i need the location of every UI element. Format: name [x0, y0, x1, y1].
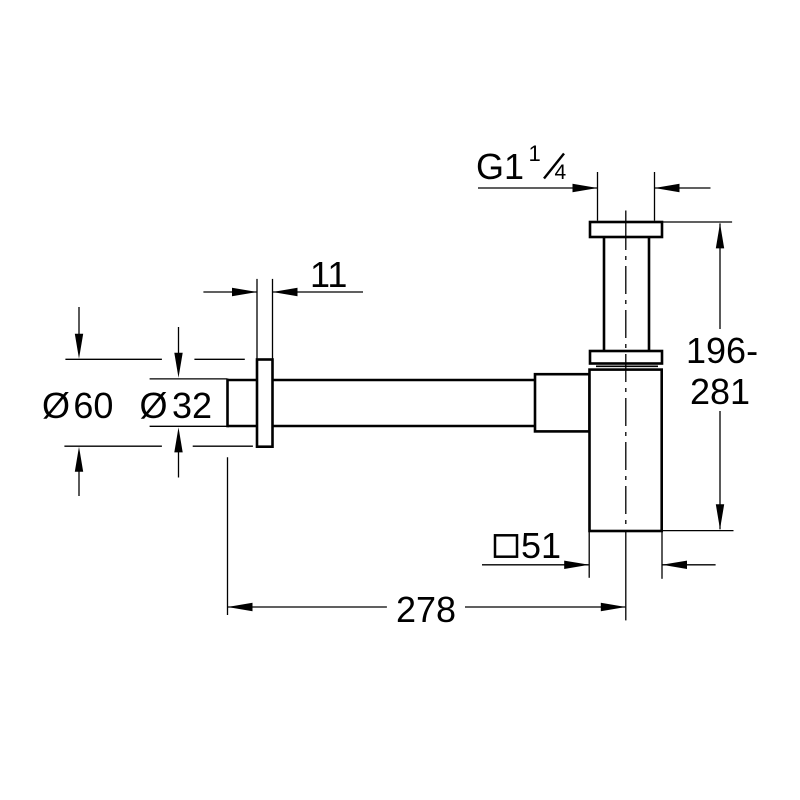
bottom flange [590, 351, 662, 364]
top flange [590, 222, 662, 237]
svg-text:196-: 196- [686, 330, 758, 371]
vertical outlet pipe walls [604, 237, 649, 351]
dimension square 51 [482, 532, 716, 579]
svg-text:281: 281 [690, 371, 750, 412]
connector block [535, 374, 590, 431]
svg-text:G1: G1 [476, 146, 524, 187]
svg-text:60: 60 [73, 385, 113, 426]
svg-text:32: 32 [172, 385, 212, 426]
svg-text:4: 4 [555, 161, 567, 184]
svg-text:Ø: Ø [140, 385, 168, 426]
svg-text:278: 278 [396, 589, 456, 630]
svg-text:51: 51 [521, 525, 561, 566]
dimension diameter 32 [150, 327, 228, 478]
svg-text:Ø: Ø [42, 385, 70, 426]
wall flange (escutcheon) [257, 360, 273, 447]
dimension 196-281 [663, 222, 734, 531]
ring line above body [596, 365, 658, 367]
dimension 11 [203, 279, 363, 359]
dimension 278 [228, 457, 626, 615]
horizontal inlet pipe [228, 379, 538, 428]
svg-text:1: 1 [529, 141, 541, 166]
dimension G1 1/4 [478, 172, 711, 221]
svg-text:11: 11 [310, 254, 347, 295]
dimension diameter 60 [64, 307, 253, 496]
vertical centerline [625, 211, 627, 621]
trap body [590, 370, 662, 531]
